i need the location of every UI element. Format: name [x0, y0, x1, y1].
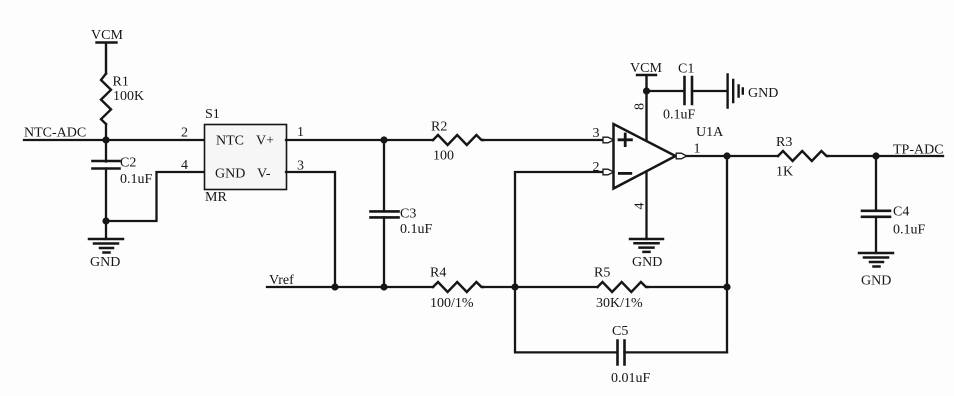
resistor R2 [431, 120, 483, 164]
junction at C3 top [380, 136, 387, 143]
svg-text:1: 1 [297, 125, 304, 140]
capacitor C1 [647, 62, 728, 123]
svg-text:GND: GND [90, 255, 120, 270]
junction inverting node [511, 283, 518, 290]
wire op-amp pin4 to ground [645, 172, 647, 240]
wire Vref horizontal [267, 286, 433, 288]
svg-text:U1A: U1A [696, 125, 724, 140]
junction VCM / C1 [643, 87, 650, 94]
wire R5 to feedback node [648, 286, 728, 288]
wire R3 to TP-ADC [828, 155, 943, 157]
svg-text:GND: GND [632, 255, 662, 270]
svg-text:R5: R5 [594, 266, 610, 281]
op-amp U1A [603, 124, 724, 189]
svg-text:0.01uF: 0.01uF [611, 371, 651, 386]
wire R4 to R5 [483, 286, 598, 288]
resistor R5 [594, 266, 648, 312]
resistor R1 [101, 74, 144, 125]
svg-text:NTC-ADC: NTC-ADC [24, 126, 86, 141]
svg-text:V+: V+ [256, 134, 274, 149]
svg-text:VCM: VCM [91, 28, 123, 43]
junction at C4 top [872, 152, 879, 159]
junction at R1/C2/NTC-ADC [102, 136, 109, 143]
capacitor C5 [515, 287, 727, 386]
svg-text:VCM: VCM [630, 61, 662, 76]
ground (below op-amp) [630, 239, 663, 270]
svg-text:3: 3 [593, 126, 600, 141]
svg-text:C4: C4 [893, 205, 909, 220]
svg-text:0.1uF: 0.1uF [893, 223, 926, 238]
ground (below C4) [859, 253, 893, 289]
svg-text:GND: GND [215, 167, 245, 182]
wire feedback vertical [726, 156, 728, 352]
svg-text:100/1%: 100/1% [430, 296, 474, 311]
svg-text:Vref: Vref [269, 273, 294, 288]
output pin arrow pin1 [676, 153, 687, 159]
wire S1 pin1 to R2 [286, 139, 433, 141]
ground (sideways, right of C1) [728, 75, 779, 108]
svg-text:R3: R3 [776, 135, 792, 150]
svg-text:GND: GND [861, 274, 891, 289]
wire S1 pin4 to C2 bottom [106, 172, 204, 221]
svg-text:MR: MR [205, 190, 227, 205]
svg-text:C3: C3 [400, 207, 416, 222]
svg-text:2: 2 [181, 126, 188, 141]
capacitor C3 [371, 140, 433, 287]
wire inverting input net [515, 172, 603, 287]
svg-text:C1: C1 [678, 62, 694, 77]
resistor R3 [776, 135, 828, 180]
svg-text:0.1uF: 0.1uF [663, 108, 696, 123]
svg-text:S1: S1 [205, 107, 220, 122]
minus sign [619, 172, 631, 175]
junction at C2 bottom [102, 217, 109, 224]
svg-text:C5: C5 [612, 324, 628, 339]
input pin arrow pin3 [603, 137, 614, 143]
junction pin3/Vref [331, 283, 338, 290]
svg-text:NTC: NTC [216, 134, 244, 149]
svg-text:1K: 1K [776, 165, 793, 180]
power symbol VCM (left) [91, 28, 123, 74]
svg-text:R2: R2 [431, 120, 447, 135]
svg-text:0.1uF: 0.1uF [400, 222, 433, 237]
input pin arrow pin2 [603, 169, 614, 175]
svg-text:0.1uF: 0.1uF [120, 172, 153, 187]
wire NTC-ADC horizontal [24, 139, 204, 141]
junction at output/feedback [723, 152, 730, 159]
svg-text:4: 4 [633, 203, 648, 210]
junction C3/Vref [380, 283, 387, 290]
svg-text:C2: C2 [120, 156, 136, 171]
svg-text:4: 4 [181, 158, 188, 173]
junction feedback/R5 [723, 283, 730, 290]
wire op-amp output to R3 [687, 155, 778, 157]
svg-text:GND: GND [748, 86, 778, 101]
capacitor C4 [862, 156, 926, 253]
ground (left, below C2) [89, 221, 123, 270]
wire S1 pin3 down to Vref [286, 172, 335, 287]
svg-text:1: 1 [694, 142, 701, 157]
capacitor C2 [93, 140, 153, 221]
svg-text:8: 8 [633, 103, 648, 110]
wire R1 to NTC-ADC net [105, 124, 107, 140]
svg-text:2: 2 [593, 160, 600, 175]
svg-text:100K: 100K [113, 89, 144, 104]
svg-text:100: 100 [433, 149, 454, 164]
svg-text:TP-ADC: TP-ADC [893, 143, 944, 158]
svg-text:R4: R4 [430, 266, 446, 281]
svg-text:V-: V- [257, 167, 271, 182]
connector S1 (MR thermistor block) [205, 107, 287, 205]
power symbol VCM (op-amp) [630, 61, 662, 141]
plus sign [619, 134, 631, 146]
resistor R4 [430, 266, 483, 312]
svg-text:30K/1%: 30K/1% [596, 296, 643, 311]
svg-text:R1: R1 [113, 75, 129, 90]
wire R2 to op-amp +input [483, 139, 603, 141]
